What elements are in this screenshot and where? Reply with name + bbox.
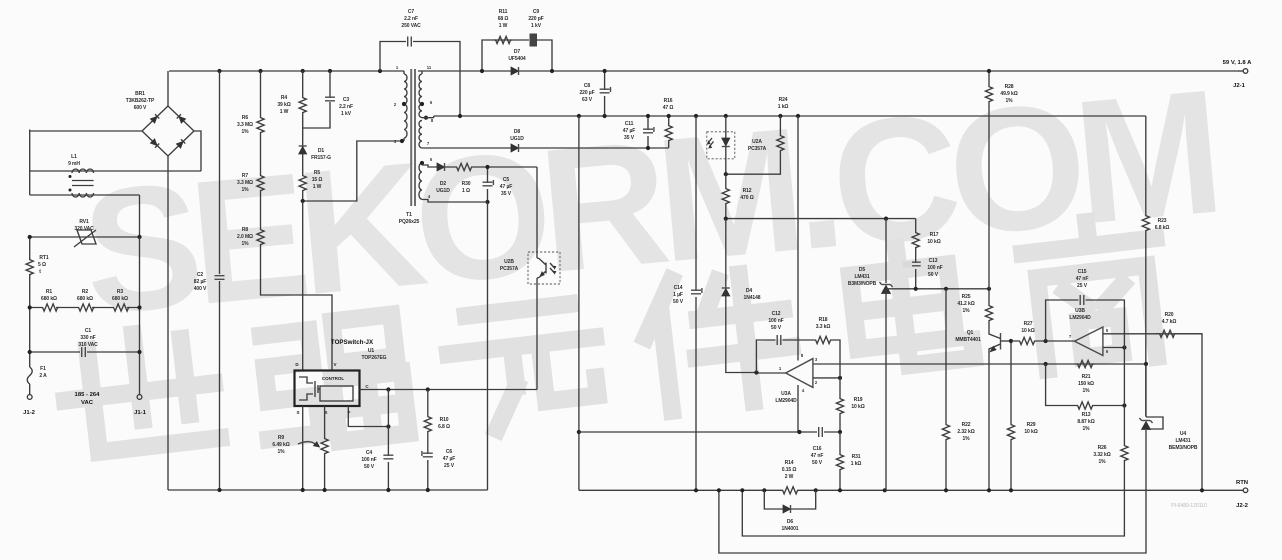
wire drain vertical to U1: [302, 201, 304, 371]
svg-text:D4: D4: [746, 288, 753, 294]
resistor R28 column: [985, 69, 992, 289]
svg-text:R17: R17: [930, 232, 939, 238]
capacitor C12 / resistor R18 loop: [756, 335, 840, 378]
capacitor C1: [28, 347, 142, 357]
hanzi 3: [444, 301, 604, 433]
wire secondary return rail: [434, 115, 1146, 117]
op-amp U3A LM2904D: [754, 116, 842, 432]
svg-text:R25: R25: [962, 294, 971, 300]
resistor R30: [455, 163, 473, 170]
svg-text:C3: C3: [343, 97, 350, 103]
resistor R25: [985, 289, 992, 330]
svg-text:9 mH: 9 mH: [68, 161, 80, 167]
capacitor C11: [643, 114, 654, 150]
svg-text:1%: 1%: [962, 436, 970, 442]
svg-text:J1-1: J1-1: [134, 410, 147, 416]
svg-text:R4: R4: [281, 95, 288, 101]
svg-text:2.0 MΩ: 2.0 MΩ: [237, 234, 253, 240]
svg-text:1%: 1%: [241, 187, 249, 193]
capacitor C3: [303, 71, 335, 128]
svg-text:U3B: U3B: [1075, 308, 1085, 314]
svg-text:68 Ω: 68 Ω: [498, 16, 509, 22]
svg-text:10 kΩ: 10 kΩ: [1024, 429, 1037, 435]
snubber loop D7 R11 C9: [482, 40, 552, 71]
svg-text:R1: R1: [46, 289, 53, 295]
svg-text:35 V: 35 V: [624, 135, 635, 141]
resistor R31: [836, 432, 843, 490]
svg-text:R16: R16: [664, 98, 673, 104]
svg-text:RTN: RTN: [1236, 480, 1248, 486]
svg-text:R22: R22: [962, 422, 971, 428]
svg-text:R27: R27: [1024, 321, 1033, 327]
svg-text:10 kΩ: 10 kΩ: [1021, 328, 1034, 334]
svg-text:100 nF: 100 nF: [927, 265, 942, 271]
wire Q1 emitter to bus: [988, 352, 990, 490]
svg-text:R20: R20: [1165, 312, 1174, 318]
varistor RV1: [28, 230, 142, 247]
wire R13 loop: [1046, 364, 1125, 406]
resistor R14 current sense: [781, 487, 799, 494]
svg-text:TOPSwitch-JX: TOPSwitch-JX: [331, 339, 374, 346]
svg-text:4.7 kΩ: 4.7 kΩ: [1162, 319, 1177, 325]
svg-text:R5: R5: [314, 170, 321, 176]
svg-text:50 V: 50 V: [771, 325, 782, 331]
svg-text:3.3 MΩ: 3.3 MΩ: [237, 122, 253, 128]
inductor L1 (common-mode choke): [69, 169, 94, 197]
svg-text:R31: R31: [852, 454, 861, 460]
svg-text:6.49 kΩ: 6.49 kΩ: [272, 442, 289, 448]
resistor R5: [302, 160, 304, 174]
wire top rail primary: [169, 70, 404, 72]
diode D6 bypass loop: [764, 490, 815, 513]
svg-text:2 W: 2 W: [785, 474, 794, 480]
resistor R4: [302, 71, 304, 96]
capacitor C5: [483, 165, 494, 204]
wire C16 row: [579, 431, 840, 433]
diode D8: [511, 144, 519, 152]
wire U1 C pin row: [360, 389, 538, 391]
wire U1 S pin to bus: [302, 406, 304, 490]
svg-text:C2: C2: [197, 272, 204, 278]
svg-text:320 VAC: 320 VAC: [74, 226, 94, 232]
thermistor RT1: [26, 258, 33, 276]
svg-text:1 W: 1 W: [499, 23, 508, 29]
svg-text:PI-6489-120110: PI-6489-120110: [1171, 503, 1207, 509]
svg-text:R26: R26: [1098, 445, 1107, 451]
resistor R2: [77, 304, 95, 311]
svg-text:LM431: LM431: [1175, 438, 1190, 444]
svg-text:1 kΩ: 1 kΩ: [778, 104, 789, 110]
svg-text:D1: D1: [318, 148, 325, 154]
wire bias bottom pin4: [422, 200, 488, 203]
svg-text:220 µF: 220 µF: [579, 90, 594, 96]
svg-text:35 V: 35 V: [501, 191, 512, 197]
svg-text:41.2 kΩ: 41.2 kΩ: [957, 301, 974, 307]
capacitor C9: [530, 34, 538, 47]
svg-text:Q1: Q1: [967, 330, 974, 336]
capacitor C6: [422, 433, 433, 490]
svg-text:F: F: [348, 410, 351, 415]
svg-text:8.87 kΩ: 8.87 kΩ: [1077, 419, 1094, 425]
svg-text:1%: 1%: [277, 449, 285, 455]
capacitor C14 column: [691, 116, 702, 490]
wire J1-1 column: [139, 237, 141, 394]
svg-text:C4: C4: [366, 450, 373, 456]
svg-text:R18: R18: [819, 317, 828, 323]
resistor R7: [260, 134, 262, 174]
capacitor C4 column: [383, 390, 393, 491]
wire D8 row: [422, 147, 669, 149]
svg-text:R14: R14: [785, 460, 794, 466]
svg-text:5 Ω: 5 Ω: [38, 262, 46, 268]
svg-text:50 V: 50 V: [812, 460, 823, 466]
svg-text:T1: T1: [406, 212, 412, 218]
svg-text:10 kΩ: 10 kΩ: [927, 239, 940, 245]
svg-text:R13: R13: [1082, 412, 1091, 418]
wire U1 X pin / resistor R9: [298, 406, 328, 490]
svg-text:1 W: 1 W: [280, 109, 289, 115]
wire compensation row: [726, 218, 916, 220]
terminal J2-1: [1238, 69, 1248, 74]
svg-text:R6: R6: [242, 115, 249, 121]
svg-text:3.32 kΩ: 3.32 kΩ: [1093, 452, 1110, 458]
resistor R21: [1076, 360, 1094, 367]
resistor R6: [260, 71, 262, 116]
svg-text:U1: U1: [368, 348, 375, 354]
svg-text:50 V: 50 V: [928, 272, 939, 278]
capacitor C15 loop: [1046, 295, 1125, 348]
svg-text:59 V, 1.8 A: 59 V, 1.8 A: [1223, 60, 1252, 66]
resistor R29: [1007, 339, 1014, 490]
diode D1: [299, 114, 307, 160]
svg-text:1 kΩ: 1 kΩ: [851, 461, 862, 467]
svg-text:LM2904D: LM2904D: [1069, 315, 1091, 321]
svg-text:LM2904D: LM2904D: [775, 398, 797, 404]
svg-text:1 kV: 1 kV: [341, 111, 352, 117]
svg-text:2.2 nF: 2.2 nF: [404, 16, 418, 22]
svg-text:2 A: 2 A: [39, 373, 47, 379]
svg-text:6.8 kΩ: 6.8 kΩ: [1155, 225, 1170, 231]
svg-text:LM431: LM431: [854, 274, 869, 280]
wire AC line lower through L1: [30, 171, 140, 237]
svg-text:11: 11: [427, 65, 432, 70]
svg-text:C16: C16: [813, 446, 822, 452]
capacitor C2 column: [215, 71, 225, 490]
wire drain node jog to pin 3: [303, 141, 402, 201]
junction dots secondary return rail: [577, 114, 581, 118]
terminal J2-2: [1243, 488, 1248, 493]
svg-text:FR157-G: FR157-G: [311, 155, 331, 161]
svg-text:D5: D5: [859, 267, 866, 273]
svg-text:63 V: 63 V: [582, 97, 593, 103]
resistor R13: [1076, 402, 1094, 409]
diode D2: [437, 163, 445, 171]
svg-text:100 nF: 100 nF: [768, 318, 783, 324]
opto U2B PC357A transistor side: [528, 167, 560, 390]
svg-text:1%: 1%: [1082, 426, 1090, 432]
svg-text:185 - 264: 185 - 264: [75, 392, 101, 398]
diode D7: [511, 67, 519, 75]
svg-text:U2B: U2B: [504, 259, 514, 265]
svg-text:R21: R21: [1082, 374, 1091, 380]
svg-text:U4: U4: [1180, 431, 1187, 437]
resistor R17: [912, 219, 919, 249]
svg-text:3.3 MΩ: 3.3 MΩ: [237, 180, 253, 186]
resistor R8: [260, 192, 262, 228]
capacitor C16: [819, 427, 823, 437]
wire left feedback vertical: [578, 116, 580, 490]
svg-text:470 Ω: 470 Ω: [740, 195, 753, 201]
wire U1 F pin: [348, 406, 388, 427]
op U1 TOPSwitch TOP267EG control block: [295, 371, 360, 407]
svg-text:47 µF: 47 µF: [623, 128, 635, 134]
svg-text:F1: F1: [40, 366, 46, 372]
svg-text:V: V: [333, 362, 336, 367]
wire sense chain to V pin: [261, 246, 333, 371]
svg-text:T3KB262-TP: T3KB262-TP: [126, 98, 155, 104]
wire secondary bottom bus: [579, 489, 1238, 491]
svg-text:J2-2: J2-2: [1236, 503, 1249, 509]
wire AC line upper through L1: [30, 131, 201, 171]
hanzi 6: [1020, 214, 1169, 370]
svg-text:D7: D7: [514, 49, 521, 55]
svg-text:BR1: BR1: [135, 91, 145, 97]
svg-text:C5: C5: [503, 177, 510, 183]
capacitor C13: [903, 249, 921, 289]
svg-text:330 nF: 330 nF: [80, 335, 95, 341]
svg-text:L1: L1: [71, 154, 77, 160]
svg-text:PQ26x25: PQ26x25: [399, 219, 420, 225]
svg-text:CONTROL: CONTROL: [322, 376, 344, 381]
resistor R19: [836, 378, 843, 432]
wire bridge AC1 left: [30, 130, 142, 172]
svg-text:R2: R2: [82, 289, 89, 295]
svg-text:3.3 kΩ: 3.3 kΩ: [816, 324, 831, 330]
opto U2A PC357A LED side: [707, 116, 735, 174]
svg-text:2.2 nF: 2.2 nF: [339, 104, 353, 110]
resistor R27: [1011, 337, 1075, 344]
svg-text:D2: D2: [440, 181, 447, 187]
svg-text:PC357A: PC357A: [748, 146, 767, 152]
hanzi 1: [58, 326, 220, 455]
svg-text:R24: R24: [779, 97, 788, 103]
svg-text:47 nF: 47 nF: [1076, 276, 1089, 282]
svg-text:250 VAC: 250 VAC: [401, 23, 421, 29]
svg-text:C12: C12: [772, 311, 781, 317]
svg-text:C11: C11: [625, 121, 634, 127]
resistor R1: [41, 304, 59, 311]
svg-text:1N4001: 1N4001: [782, 526, 799, 532]
svg-text:47 nF: 47 nF: [811, 453, 824, 459]
svg-text:R11: R11: [499, 9, 508, 15]
wire left column (input): [29, 237, 31, 394]
svg-text:R10: R10: [440, 417, 449, 423]
svg-text:50 V: 50 V: [364, 464, 375, 470]
svg-text:1%: 1%: [1082, 388, 1090, 394]
svg-text:1%: 1%: [1005, 98, 1013, 104]
terminal J1-2: [27, 395, 32, 400]
svg-text:C14: C14: [674, 285, 683, 291]
svg-text:U2A: U2A: [752, 139, 762, 145]
svg-text:100 nF: 100 nF: [361, 457, 376, 463]
svg-text:680 kΩ: 680 kΩ: [41, 296, 57, 302]
svg-text:C6: C6: [446, 449, 453, 455]
svg-text:RV1: RV1: [79, 219, 89, 225]
fuse F1: [27, 367, 32, 384]
wire D5 anode to bus: [885, 294, 887, 491]
resistor R12: [722, 174, 729, 218]
hanzi 5: [847, 241, 974, 371]
resistor R3: [112, 304, 130, 311]
shunt reference U4 LM431: [719, 364, 1163, 553]
svg-text:400 V: 400 V: [194, 286, 207, 292]
svg-text:R23: R23: [1158, 218, 1167, 224]
svg-text:R9: R9: [278, 435, 285, 441]
svg-text:1N4148: 1N4148: [744, 295, 761, 301]
svg-text:PC357A: PC357A: [500, 266, 519, 272]
svg-text:150 kΩ: 150 kΩ: [1078, 381, 1094, 387]
svg-text:D6: D6: [787, 519, 794, 525]
svg-text:680 kΩ: 680 kΩ: [77, 296, 93, 302]
junction dots top rail: [217, 69, 221, 73]
svg-text:C9: C9: [533, 9, 540, 15]
svg-text:50 V: 50 V: [673, 299, 684, 305]
wire 59V top rail secondary: [418, 70, 1238, 72]
hanzi 2: [256, 314, 409, 449]
resistor R26 column: [742, 348, 1128, 537]
svg-text:C1: C1: [85, 328, 92, 334]
svg-text:1 kV: 1 kV: [531, 23, 542, 29]
svg-text:1 Ω: 1 Ω: [462, 188, 470, 194]
svg-text:6.8 Ω: 6.8 Ω: [438, 424, 450, 430]
svg-text:R28: R28: [1005, 84, 1014, 90]
transformer T1: [402, 69, 434, 206]
svg-text:1 µF: 1 µF: [673, 292, 683, 298]
wire primary bottom bus: [168, 489, 488, 491]
shunt reference D5 LM431: [880, 219, 893, 294]
wire bias return to bus: [487, 202, 489, 490]
svg-text:C7: C7: [408, 9, 415, 15]
resistor R16: [665, 114, 672, 148]
svg-text:J1-2: J1-2: [23, 410, 36, 416]
svg-text:C13: C13: [929, 258, 938, 264]
resistor R11: [494, 36, 512, 43]
wire U3A pin3 row to R21 R23 node: [813, 363, 1146, 365]
svg-text:1%: 1%: [1098, 459, 1106, 465]
svg-text:1%: 1%: [962, 308, 970, 314]
svg-text:600 V: 600 V: [134, 105, 147, 111]
svg-text:UG1D: UG1D: [436, 188, 450, 194]
svg-text:82 µF: 82 µF: [194, 279, 206, 285]
svg-text:47 Ω: 47 Ω: [663, 105, 674, 111]
svg-text:R30: R30: [462, 181, 471, 187]
svg-text:15 Ω: 15 Ω: [312, 177, 323, 183]
svg-text:R3: R3: [117, 289, 124, 295]
bias winding row D2 R30 C5: [422, 165, 537, 167]
resistor R10: [424, 390, 431, 434]
terminal J1-1: [137, 395, 142, 400]
capacitor C7 branch: [380, 37, 460, 117]
resistor R20: [1155, 330, 1202, 490]
svg-text:25 V: 25 V: [444, 463, 455, 469]
resistor R22: [942, 289, 949, 491]
svg-text:S: S: [296, 410, 299, 415]
svg-text:UF5404: UF5404: [508, 56, 526, 62]
svg-text:49.9 kΩ: 49.9 kΩ: [1000, 91, 1017, 97]
svg-text:0.15 Ω: 0.15 Ω: [782, 467, 797, 473]
svg-text:1 W: 1 W: [313, 184, 322, 190]
svg-text:1%: 1%: [241, 129, 249, 135]
svg-text:R29: R29: [1027, 422, 1036, 428]
wire left loop vertical upper (bridge DC+): [167, 71, 169, 106]
svg-text:J2-1: J2-1: [1233, 83, 1246, 89]
svg-text:310 VAC: 310 VAC: [78, 342, 98, 348]
svg-text:680 kΩ: 680 kΩ: [112, 296, 128, 302]
svg-text:R19: R19: [854, 397, 863, 403]
wire rail corner down at right: [1145, 116, 1147, 214]
svg-text:MMBT4401: MMBT4401: [955, 337, 981, 343]
svg-text:R7: R7: [242, 173, 249, 179]
wire bridge DC- to bottom bus: [167, 156, 169, 490]
svg-text:R8: R8: [242, 227, 249, 233]
transistor Q1 MMBT4401: [989, 330, 1011, 352]
svg-text:C15: C15: [1078, 269, 1087, 275]
svg-text:UG1D: UG1D: [510, 136, 524, 142]
svg-text:R12: R12: [743, 188, 752, 194]
svg-text:39 kΩ: 39 kΩ: [277, 102, 290, 108]
svg-text:B3M3/NOPB: B3M3/NOPB: [848, 281, 877, 287]
svg-text:47 µF: 47 µF: [500, 184, 512, 190]
svg-text:C8: C8: [584, 83, 591, 89]
svg-text:1%: 1%: [241, 241, 249, 247]
svg-text:RT1: RT1: [39, 255, 48, 261]
svg-text:BEM3/NOPB: BEM3/NOPB: [1169, 445, 1198, 451]
resistor R24: [724, 116, 784, 176]
svg-text:TOP267EG: TOP267EG: [362, 355, 387, 361]
svg-text:2.32 kΩ: 2.32 kΩ: [957, 429, 974, 435]
op-amp U3B LM2904D: [1075, 327, 1203, 356]
svg-text:220 pF: 220 pF: [528, 16, 543, 22]
svg-text:VAC: VAC: [81, 400, 94, 406]
hanzi 4: [639, 267, 797, 413]
wire reference node rail: [886, 288, 989, 290]
resistor R23: [1142, 214, 1149, 416]
svg-text:X: X: [324, 410, 327, 415]
svg-text:D8: D8: [514, 129, 521, 135]
svg-text:10 kΩ: 10 kΩ: [851, 404, 864, 410]
svg-text:47 µF: 47 µF: [443, 456, 455, 462]
capacitor C8: [600, 69, 611, 118]
bridge rectifier BR1: [142, 106, 194, 156]
resistor row R1 R2 R3: [30, 307, 140, 309]
svg-text:U3A: U3A: [781, 391, 791, 397]
diode D4: [722, 219, 757, 373]
svg-text:25 V: 25 V: [1077, 283, 1088, 289]
